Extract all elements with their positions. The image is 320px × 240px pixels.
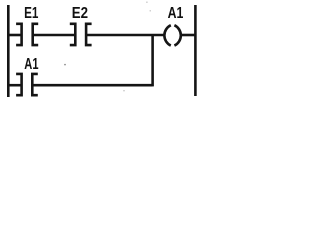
svg-text:A1: A1 [168, 5, 184, 22]
svg-text:A1: A1 [24, 56, 38, 73]
svg-text:E1: E1 [24, 5, 38, 22]
svg-text:E2: E2 [72, 5, 88, 22]
